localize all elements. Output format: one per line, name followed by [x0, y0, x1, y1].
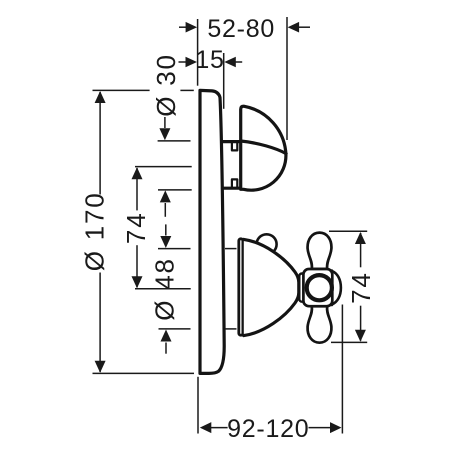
arrowheads — [95, 22, 366, 433]
dim 15: left arrow stem — [179, 61, 187, 63]
dim Ø170: top extension line (broken around Ø30 label) — [93, 89, 150, 91]
arrow Ø48 bottom (points up, outside) — [161, 330, 172, 342]
arrow 74-left top (points up) — [132, 167, 143, 179]
cross handle: near lobe (towards viewer) — [299, 274, 305, 302]
arrow Ø30 bottom (points up, outside) — [160, 190, 171, 202]
cross handle: bottom lobe — [308, 306, 332, 342]
arrow 15 left (points right) — [186, 57, 198, 68]
dim Ø170: dimension line (broken for label) — [99, 92, 101, 195]
dim Ø170: bottom extension line — [93, 372, 195, 374]
svg-text:52-80: 52-80 — [207, 15, 275, 43]
wall plate (escutcheon, side profile) — [200, 90, 224, 373]
cross handle: far lobe (away from viewer, half disc) — [332, 271, 341, 305]
dimension labels — [195, 15, 309, 443]
arrow 92-120 right (points right) — [330, 422, 342, 433]
arrow 15 right (points left) — [224, 57, 236, 68]
dim 74 left: bottom tick — [135, 288, 191, 290]
dim 92-120: right extension line — [341, 305, 343, 434]
dim 15: right arrow stem — [236, 61, 243, 63]
dim Ø30: bottom tick — [158, 189, 192, 191]
dim Ø30: top arrow stem — [164, 117, 166, 128]
dim Ø48: bottom arrow stem — [165, 343, 167, 354]
svg-text:Ø 30: Ø 30 — [151, 53, 181, 117]
arrow 74-left bottom (points down) — [132, 276, 143, 288]
upper valve: bottom retainer tab — [232, 179, 237, 188]
svg-text:Ø 48: Ø 48 — [149, 257, 179, 321]
arrow 52-80 right (points left) — [288, 22, 300, 33]
arrow 74-right bottom (points down) — [355, 330, 366, 342]
lower valve: base flange ring — [239, 239, 243, 335]
arrow Ø30 top (points down, outside) — [159, 128, 170, 140]
arrow Ø48 top (points down, outside) — [160, 236, 171, 248]
dim 52-80: left arrow stem — [179, 26, 187, 28]
dim 74 left: dimension line (broken for label) — [136, 168, 138, 210]
dim 74 right: top extension line — [329, 230, 367, 232]
arrow 52-80 left (points right) — [186, 22, 198, 33]
dim 74 right: bottom extension line — [331, 341, 367, 343]
svg-text:74: 74 — [346, 271, 376, 304]
lower valve: bell housing — [244, 239, 299, 335]
svg-text:92-120: 92-120 — [227, 415, 309, 443]
dim 92-120: dimension line segments — [209, 427, 228, 429]
dim 74 right: dimension line (broken for label) — [360, 233, 362, 267]
cross handle: hub body — [303, 269, 332, 306]
dim Ø48: top arrow stem — [165, 224, 167, 235]
arrow 74-right top (points up) — [355, 232, 366, 244]
svg-text:15: 15 — [195, 46, 224, 74]
arrow Ø170 top (points up) — [95, 91, 106, 103]
dim 52-80: left extension line — [197, 19, 199, 86]
arrow 92-120 left (points left) — [200, 422, 212, 433]
dim Ø48: top tick — [158, 248, 191, 250]
dim 52-80: right extension line — [286, 17, 288, 140]
dim Ø30: bottom arrow stem — [164, 203, 166, 217]
cross handle: top lobe — [308, 233, 332, 269]
dim 52-80: right arrow stem — [299, 26, 311, 28]
svg-text:74: 74 — [121, 212, 151, 245]
upper valve: dome knob (shut-off handle) — [241, 106, 286, 190]
arrow Ø170 bottom (points down) — [95, 361, 106, 373]
svg-text:Ø 170: Ø 170 — [79, 191, 109, 271]
lower valve: stop button bump on bell — [257, 234, 277, 254]
cross handle: far lobe flat face — [330, 271, 333, 305]
upper valve: dome seam — [241, 141, 286, 154]
dim 15: right extension line — [223, 53, 225, 109]
dim 92-120: left extension line — [197, 377, 199, 434]
upper valve: top retainer tab — [232, 142, 237, 151]
cross handle: centre ring — [307, 275, 332, 300]
dim Ø48: bottom tick — [159, 328, 191, 330]
upper valve: neck top line — [222, 140, 241, 143]
dim 74 left: top extension line — [135, 166, 192, 168]
dim Ø30: top tick — [158, 140, 191, 142]
upper valve: neck bottom line — [223, 187, 241, 190]
